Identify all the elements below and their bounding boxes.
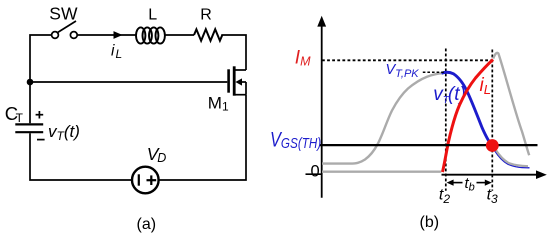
current arrow iL [114,31,123,39]
capacitor CT [15,124,43,132]
svg-text:t3: t3 [487,187,498,206]
svg-text:VD: VD [147,144,166,165]
x axis [442,174,539,176]
minus sign [37,139,45,141]
node junction dot [27,79,34,86]
svg-text:(a): (a) [137,216,157,233]
threshold line VGS(TH) [320,144,538,146]
wire cap to bottom corner [30,133,132,180]
y axis [321,25,323,198]
wire top-left corner and left vertical [30,35,51,123]
svg-text:VT,PK: VT,PK [386,62,420,80]
transistor M1 [229,66,246,95]
gray iL falling edge [493,53,529,156]
wire switch to inductor [77,34,136,36]
svg-text:IM: IM [295,47,311,68]
wire resistor to drain corner [221,35,246,70]
svg-text:M1: M1 [208,94,229,114]
svg-text:VGS(TH): VGS(TH) [270,127,321,151]
switch SW [52,21,78,38]
plus sign [36,111,44,119]
svg-text:SW: SW [49,4,78,24]
svg-text:iL: iL [480,75,491,97]
svg-text:t2: t2 [439,187,450,206]
inductor L [136,27,165,43]
svg-text:R: R [200,6,212,23]
IM dashed level line [322,59,492,61]
svg-text:(b): (b) [420,214,440,231]
gray tail after dot [496,150,529,167]
svg-text:iL: iL [111,43,122,62]
wire bottom-right and source return [159,95,246,180]
zero tick [306,173,323,175]
wire inductor to resistor [165,34,194,36]
gray iL baseline [322,170,441,172]
tb measure arrows [453,182,486,184]
red dot [486,139,499,152]
t3 dashed vertical [491,50,493,191]
svg-text:CT: CT [5,103,24,125]
svg-text:vT(t): vT(t) [48,122,80,143]
svg-text:L: L [148,6,157,23]
blue thin tail under gray [495,151,530,168]
svg-text:tb: tb [465,175,475,194]
t2 dashed vertical [445,49,447,191]
wire gate [30,81,227,83]
svg-text:0: 0 [311,162,320,180]
resistor R [194,29,222,40]
source VD [132,167,159,194]
blue v(t) curve [442,72,493,146]
red iL curve [443,60,494,173]
gray v-curve baseline and rise [322,73,443,163]
